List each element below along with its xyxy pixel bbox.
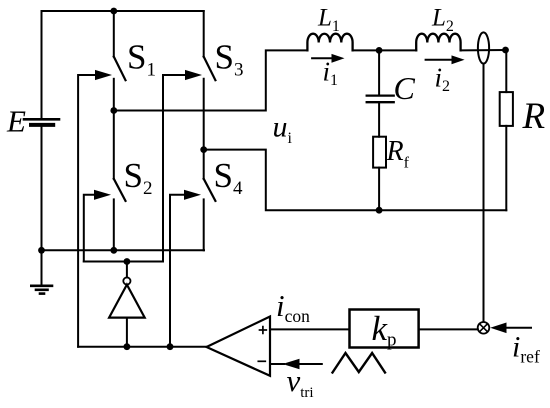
comparator xyxy=(207,317,271,376)
wire top rail xyxy=(42,10,204,12)
wire bridge upper output to L1 xyxy=(114,50,308,110)
arrow i_ref input xyxy=(490,323,531,334)
gain block k_p xyxy=(350,310,419,348)
inductor L1 xyxy=(307,34,352,51)
gate drive wire to S1 xyxy=(78,70,112,347)
node filter C tap xyxy=(376,47,383,54)
gate drive wire to S3 xyxy=(163,70,202,262)
node S2 bottom on ground rail xyxy=(110,247,117,254)
wire L2 to load node xyxy=(461,49,506,51)
inductor L2 xyxy=(416,34,460,51)
wire battery positive to top rail xyxy=(41,11,43,119)
switch S2 xyxy=(114,111,126,251)
wire k_p to multiplier xyxy=(419,328,478,330)
capacitor C xyxy=(367,50,394,136)
resistor Rf xyxy=(373,137,386,211)
switch S3 xyxy=(204,11,216,150)
node NOT output xyxy=(124,258,131,265)
node Rf to bottom rail xyxy=(376,207,383,214)
wire L1 to node xyxy=(353,49,417,51)
node battery/ground rail xyxy=(38,247,45,254)
triangle wave symbol xyxy=(333,353,386,373)
wire comparator output rail xyxy=(78,346,206,348)
svg-text:E: E xyxy=(6,104,26,139)
resistor R xyxy=(500,50,513,210)
gate drive wire to S2 xyxy=(84,190,111,262)
multiplier xyxy=(478,322,490,334)
arrow i1 xyxy=(312,54,344,63)
svg-text:C: C xyxy=(394,70,416,106)
wire ground rail xyxy=(42,249,205,251)
wire current sensor to multiplier xyxy=(483,64,485,322)
current sensor xyxy=(478,32,489,63)
node NOT input xyxy=(124,343,131,350)
battery E xyxy=(24,119,59,125)
node S4 gate tap xyxy=(167,343,174,350)
ground xyxy=(31,250,52,293)
wire i_con : k_p to comparator + input xyxy=(270,328,350,330)
wire bridge lower output to bottom rail xyxy=(204,150,507,211)
wire NOT output rail xyxy=(84,261,163,263)
switch S1 xyxy=(114,11,126,111)
node top rail / S1 xyxy=(110,8,117,15)
node S1-S2 midpoint xyxy=(110,107,117,114)
arrow i2 xyxy=(426,55,465,64)
svg-text:R: R xyxy=(522,96,546,137)
node S3-S4 midpoint xyxy=(200,146,207,153)
wire v_tri to comparator - input xyxy=(270,359,322,369)
node load tap xyxy=(502,47,509,54)
switch S4 xyxy=(204,150,216,251)
inverter NOT gate xyxy=(109,262,145,347)
wire battery negative down to ground rail xyxy=(41,125,43,251)
gate drive wire to S4 xyxy=(170,190,201,347)
